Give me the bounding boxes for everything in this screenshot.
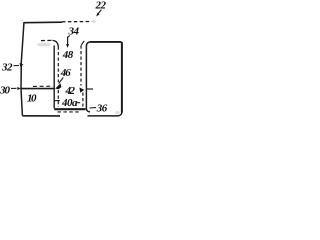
scan smudge above top-left corner [21,20,23,22]
right rect top edge [90,41,122,43]
svg-text:42: 42 [65,85,76,97]
dashed line above mid horizontal [33,85,53,87]
scan smudge near 22 arrow tip [91,20,96,23]
scan smudge near dashed corner [37,43,51,47]
arrowhead of 32 leader [20,63,24,67]
right rect top-left arc [86,42,90,46]
label 32 leader dash [14,65,20,67]
dashed corner arc [53,40,59,46]
tick on right rect left edge y89 [87,88,93,90]
left edge vertical [21,22,24,116]
right dashed vertical x81 [80,46,82,86]
inner solid vertical x54 [53,46,55,109]
top edge solid (substrate 30 top line) [24,21,62,24]
inner dashed vertical x58 [57,47,59,83]
svg-text:30: 30 [0,84,11,96]
svg-text:36: 36 [96,102,108,114]
label 36 leader dash [90,107,97,109]
top edge dashed continuation [62,21,90,23]
svg-text:48: 48 [62,49,74,61]
svg-text:34: 34 [68,25,80,37]
right rect left edge [86,46,90,112]
arrowhead of 22 leader [96,13,100,17]
svg-text:22: 22 [95,0,107,12]
right rect right edge [121,42,123,113]
label 22 leader [98,10,101,14]
inner dashed vertical lower part [57,90,59,107]
label 30 leader dash [11,87,17,89]
label 34 leader stroke [67,37,69,45]
scan smudge inside bottom-right corner [115,111,120,114]
svg-text:46: 46 [60,67,72,79]
dashed corner horizontal [41,39,52,41]
step thick horizontal y109 [54,108,85,110]
arrowhead of 30 leader [17,87,21,90]
label 34 leader serif [68,36,70,38]
small cross tick at bottom of inner verticals [54,100,60,102]
svg-text:32: 32 [1,61,13,73]
label 46 leader diagonal [59,78,64,84]
mid horizontal line y88 [21,88,55,90]
arrowhead of 46 leader (blob at junction) [55,83,61,89]
svg-text:40a: 40a [61,97,78,109]
bottom-left long line [22,115,60,117]
label 40a trailing dash [77,102,80,104]
arrowhead of 34 leader [66,44,69,48]
right rect bottom edge with rounded corner [88,112,122,116]
right lower dashes x83 [82,93,84,107]
diagonal tick above x81 line [81,41,84,46]
step dashed horizontal y112 [58,111,81,113]
svg-text:10: 10 [27,92,37,104]
arrowhead of 42 leader [79,88,84,93]
